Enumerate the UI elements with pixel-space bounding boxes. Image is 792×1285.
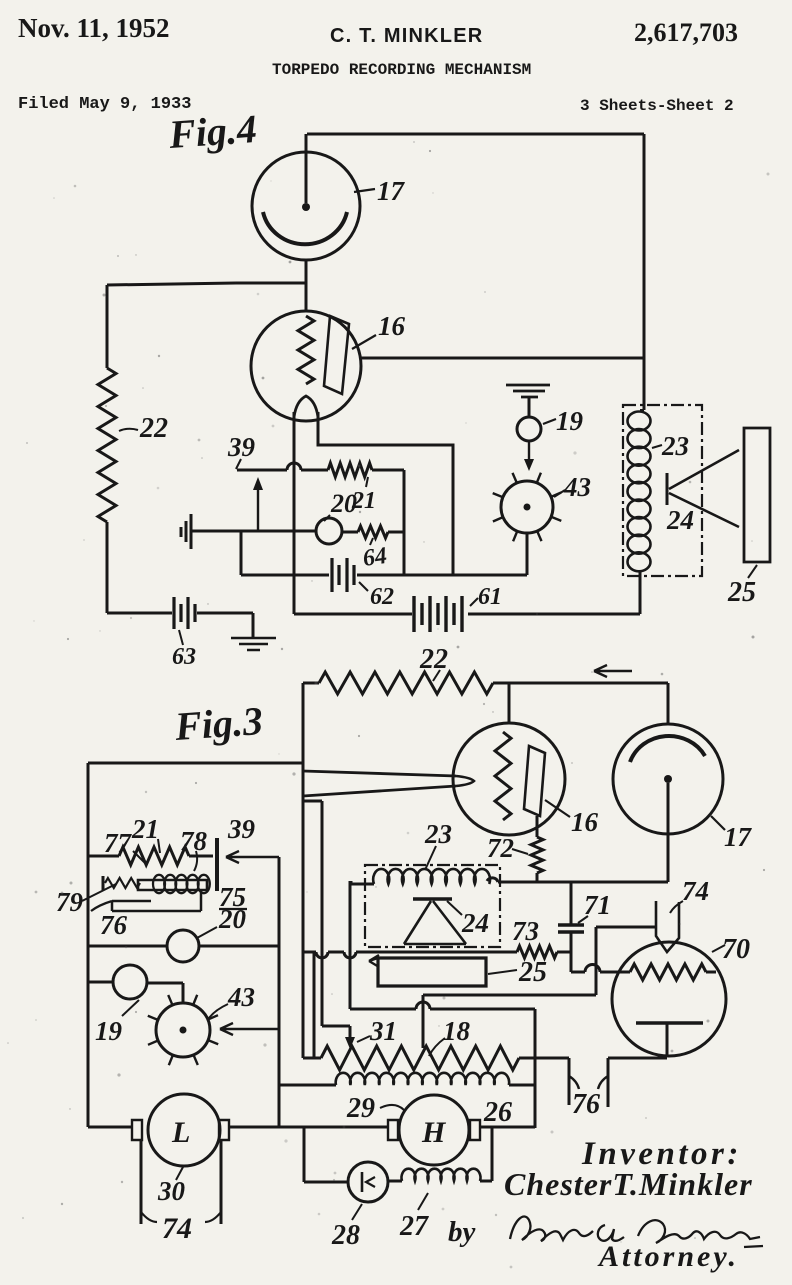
svg-text:20: 20 [330,489,357,518]
svg-text:Fig.3: Fig.3 [172,698,264,749]
svg-text:26: 26 [483,1097,512,1128]
svg-text:2,617,703: 2,617,703 [634,18,738,47]
svg-text:30: 30 [157,1176,186,1206]
svg-text:TORPEDO RECORDING MECHANISM: TORPEDO RECORDING MECHANISM [272,61,531,79]
svg-text:72: 72 [487,833,514,863]
svg-text:H: H [421,1116,447,1149]
svg-text:43: 43 [563,472,591,502]
svg-text:ChesterT.Minkler: ChesterT.Minkler [504,1166,753,1202]
svg-text:25: 25 [518,957,547,988]
svg-text:73: 73 [512,916,539,946]
svg-text:20: 20 [218,904,247,934]
svg-text:17: 17 [724,822,753,852]
svg-text:31: 31 [369,1016,397,1046]
svg-text:C. T. MINKLER: C. T. MINKLER [330,25,483,47]
svg-text:24: 24 [666,505,694,535]
svg-text:22: 22 [139,413,168,444]
svg-text:74: 74 [162,1212,192,1245]
svg-text:24: 24 [461,908,489,938]
svg-text:39: 39 [227,432,256,462]
svg-text:76: 76 [572,1089,600,1120]
svg-text:21: 21 [131,814,159,844]
svg-text:16: 16 [571,807,599,837]
svg-text:78: 78 [180,826,208,856]
svg-text:70: 70 [722,934,750,965]
svg-text:by: by [448,1216,476,1248]
svg-text:77: 77 [104,828,133,858]
svg-text:61: 61 [478,584,502,610]
svg-text:19: 19 [95,1016,123,1046]
svg-text:Fig.4: Fig.4 [166,106,258,157]
svg-text:63: 63 [172,644,196,670]
svg-text:79: 79 [56,887,84,917]
svg-text:Filed May 9, 1933: Filed May 9, 1933 [18,95,191,114]
svg-text:64: 64 [361,543,388,572]
svg-text:3 Sheets-Sheet 2: 3 Sheets-Sheet 2 [580,97,734,115]
svg-text:62: 62 [370,584,394,610]
svg-text:76: 76 [100,910,128,940]
svg-text:29: 29 [346,1093,375,1124]
svg-text:18: 18 [443,1016,471,1046]
svg-text:28: 28 [331,1220,360,1251]
svg-text:71: 71 [584,890,611,920]
svg-text:25: 25 [727,577,756,608]
svg-text:27: 27 [399,1211,429,1242]
svg-text:74: 74 [682,876,709,906]
svg-text:22: 22 [419,644,448,675]
svg-text:17: 17 [377,176,406,206]
svg-text:Nov. 11, 1952: Nov. 11, 1952 [18,13,170,43]
svg-text:16: 16 [378,311,406,341]
svg-text:39: 39 [227,814,256,844]
svg-text:19: 19 [556,406,584,436]
svg-text:23: 23 [661,431,689,461]
svg-text:23: 23 [424,819,452,849]
svg-text:43: 43 [227,982,255,1012]
svg-text:Attorney.: Attorney. [597,1240,739,1273]
svg-text:L: L [171,1116,190,1149]
